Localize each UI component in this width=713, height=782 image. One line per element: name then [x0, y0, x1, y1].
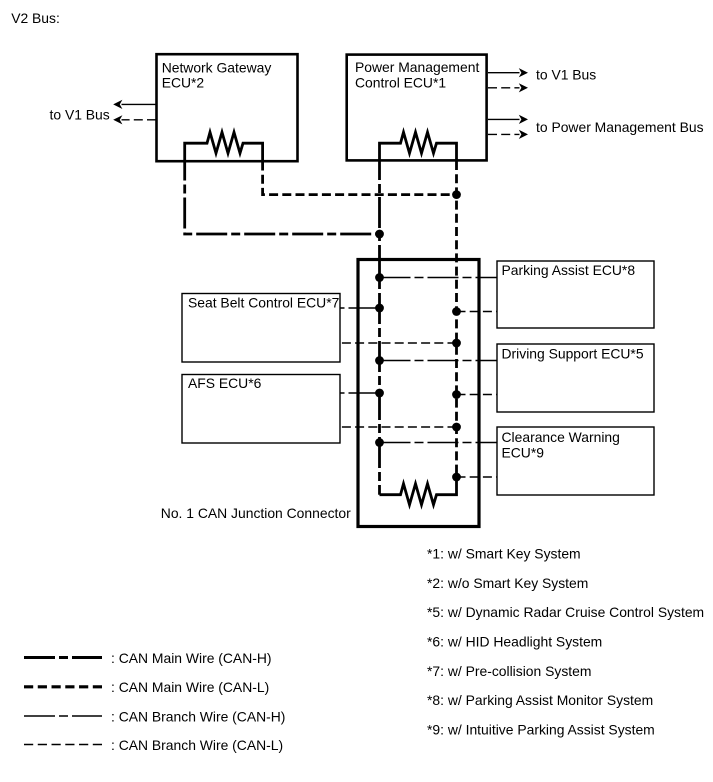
wire branch H to Clearance Warning	[380, 442, 498, 444]
resistor R2 (terminating resistor inside Power Management ECU)	[380, 132, 457, 161]
wire branch L to Clearance Warning	[457, 476, 498, 478]
wire branch L to Driving Support	[457, 394, 498, 396]
svg-text:*5: w/ Dynamic Radar Cruise Co: *5: w/ Dynamic Radar Cruise Control Syst…	[427, 604, 704, 620]
node dot L AFS	[452, 423, 461, 432]
svg-text:: CAN Branch Wire (CAN-H): : CAN Branch Wire (CAN-H)	[111, 708, 285, 724]
node dot L Driving Support	[452, 390, 461, 399]
node junction dot CAN-L main merge	[452, 190, 461, 199]
wire branch L to AFS	[340, 426, 457, 428]
svg-text:: CAN Main Wire (CAN-L): : CAN Main Wire (CAN-L)	[111, 679, 269, 695]
wire CAN main L from Network Gateway (leg down, then right to junction node)	[263, 162, 457, 195]
wire arrow right dashed (to V1 Bus CAN-L)	[488, 83, 528, 92]
wire arrow right solid (to V1 Bus CAN-H)	[488, 68, 528, 77]
svg-text:Driving Support ECU*5: Driving Support ECU*5	[502, 346, 644, 362]
svg-text:: CAN Main Wire (CAN-H): : CAN Main Wire (CAN-H)	[111, 650, 272, 666]
svg-text:ECU*2: ECU*2	[162, 75, 205, 91]
legend sample CAN main L	[24, 685, 102, 688]
svg-text:*2: w/o Smart Key System: *2: w/o Smart Key System	[427, 575, 588, 591]
wire branch H to Parking Assist	[380, 277, 498, 279]
svg-text:AFS ECU*6: AFS ECU*6	[188, 375, 262, 391]
svg-text:Seat Belt Control ECU*7: Seat Belt Control ECU*7	[188, 295, 340, 311]
wire branch L to Parking Assist	[457, 311, 498, 313]
wire branch L to Seat Belt Control	[340, 342, 457, 344]
wire arrow left dashed (to V1 Bus CAN-L)	[113, 115, 156, 124]
node dot L Seat Belt	[452, 339, 461, 348]
svg-text:to Power Management Bus: to Power Management Bus	[536, 119, 704, 135]
svg-text:Network Gateway: Network Gateway	[162, 59, 272, 75]
svg-text:*1: w/ Smart Key System: *1: w/ Smart Key System	[427, 546, 581, 562]
wire CAN main H from Network Gateway (leg down, then right to junction node)	[185, 162, 380, 235]
wire branch H to Driving Support	[380, 360, 498, 362]
ECU box U5 Driving Support	[497, 344, 654, 412]
wire branch H to AFS	[340, 392, 380, 394]
svg-text:to V1 Bus: to V1 Bus	[50, 106, 110, 122]
node dot H AFS	[375, 389, 384, 398]
svg-text:: CAN Branch Wire (CAN-L): : CAN Branch Wire (CAN-L)	[111, 737, 283, 753]
svg-text:Parking Assist ECU*8: Parking Assist ECU*8	[502, 262, 636, 278]
resistor R3 (terminating resistor inside junction connector)	[380, 477, 457, 505]
svg-text:V2 Bus:: V2 Bus:	[11, 10, 60, 26]
ECU box U7 Seat Belt Control	[182, 294, 340, 363]
svg-text:No. 1 CAN Junction Connector: No. 1 CAN Junction Connector	[161, 505, 351, 521]
node dot H Seat Belt	[375, 304, 384, 313]
svg-text:Clearance Warning: Clearance Warning	[502, 429, 620, 445]
node dot L Parking Assist	[452, 307, 461, 316]
svg-text:*8: w/ Parking Assist Monitor: *8: w/ Parking Assist Monitor System	[427, 692, 653, 708]
ECU box U9 Clearance Warning	[497, 427, 654, 495]
node dot H Parking Assist	[375, 273, 384, 282]
legend sample CAN main H	[24, 656, 102, 659]
wire CAN main L vertical (Power Management leg through junction box)	[455, 161, 458, 477]
node dot H Clearance Warning	[375, 438, 384, 447]
wire CAN main H vertical (Power Management leg through junction box)	[378, 161, 381, 495]
svg-text:Control ECU*1: Control ECU*1	[355, 74, 446, 90]
node dot H Driving Support	[375, 356, 384, 365]
node junction dot CAN-H main merge	[375, 230, 384, 239]
svg-text:ECU*9: ECU*9	[502, 445, 545, 461]
svg-text:*6: w/ HID Headlight System: *6: w/ HID Headlight System	[427, 633, 602, 649]
svg-text:*7: w/ Pre-collision System: *7: w/ Pre-collision System	[427, 663, 591, 679]
wire arrow right solid (to Power Management Bus CAN-H)	[488, 115, 528, 124]
legend sample CAN branch H	[24, 715, 102, 717]
svg-text:to V1 Bus: to V1 Bus	[536, 67, 596, 83]
svg-text:*9: w/ Intuitive Parking Assis: *9: w/ Intuitive Parking Assist System	[427, 721, 655, 737]
ECU box U1 Power Management Control	[347, 55, 487, 161]
legend sample CAN branch L	[24, 744, 102, 746]
resistor R1 (terminating resistor inside Network Gateway ECU)	[185, 132, 263, 161]
node dot L Clearance Warning	[452, 473, 461, 482]
wire arrow left solid (to V1 Bus CAN-H)	[113, 100, 156, 109]
ECU box U6 AFS	[182, 375, 340, 444]
wire branch H to Seat Belt Control	[340, 307, 380, 309]
ECU box U2 Network Gateway	[157, 54, 298, 161]
wire arrow right dashed (to Power Management Bus CAN-L)	[488, 130, 528, 139]
svg-text:Power Management: Power Management	[355, 59, 479, 75]
ECU box U8 Parking Assist	[497, 261, 654, 328]
junction connector box	[358, 260, 479, 527]
